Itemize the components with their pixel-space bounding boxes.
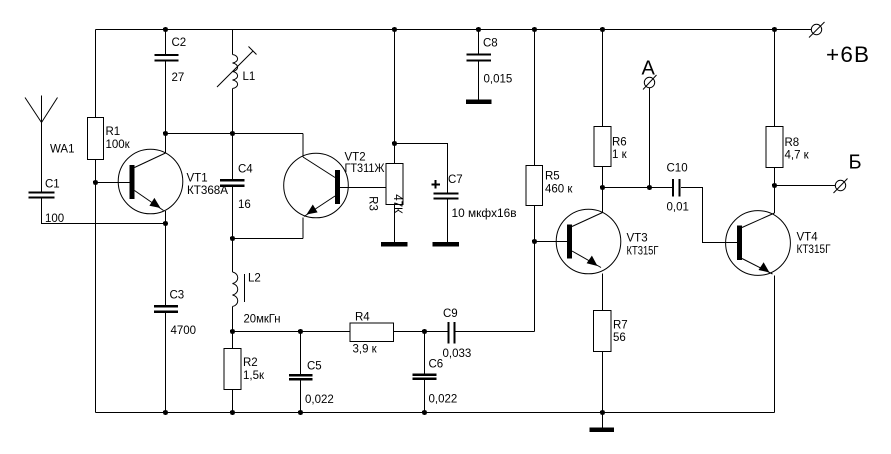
junction R5 bottom / VT3 base: [532, 239, 537, 244]
wire R8 riser from rail: [774, 30, 776, 127]
wire C10 to VT4 base: [681, 188, 737, 243]
terminal A: [642, 58, 657, 90]
svg-text:VT2: VT2: [345, 152, 366, 164]
capacitor C7 10uF electrolytic: [432, 174, 517, 242]
svg-text:C9: C9: [443, 308, 458, 320]
transistor VT2 GT311Zh: [284, 134, 386, 239]
wire C4 bottom to VT2 emitter y=238.5: [233, 238, 304, 240]
wire VT4 emitter drop to bus: [774, 276, 776, 413]
svg-text:C7: C7: [448, 174, 463, 186]
resistor R6 1k: [594, 127, 628, 167]
svg-text:C10: C10: [667, 163, 688, 175]
svg-text:100: 100: [45, 213, 64, 225]
junction C6 bottom on bus: [422, 410, 427, 415]
resistor R2 1.5k: [224, 332, 265, 413]
junction node A / C10 line: [647, 185, 652, 190]
junction C5 top / R4 left: [298, 329, 303, 334]
resistor R5 460k: [526, 166, 573, 206]
junction R2 bottom on bus: [230, 410, 235, 415]
junction C2 bottom / VT1 collector: [163, 131, 168, 136]
capacitor C6 0.022: [413, 332, 458, 413]
svg-text:L2: L2: [248, 273, 261, 285]
wire R1 riser to rail and drop to bus: [95, 30, 97, 413]
ground under R3: [381, 242, 408, 247]
svg-text:L1: L1: [243, 71, 256, 83]
capacitor C10 0.01: [667, 163, 689, 214]
svg-text:1 к: 1 к: [612, 149, 628, 161]
svg-text:КТ315Г: КТ315Г: [627, 246, 660, 258]
resistor R1 100k: [88, 118, 131, 160]
svg-text:4700: 4700: [171, 325, 197, 337]
junction R7 bottom / ground on bus: [600, 410, 605, 415]
junction R4 right / C6 / C9: [422, 329, 427, 334]
wire node B lead: [775, 185, 836, 187]
svg-text:C2: C2: [172, 37, 187, 49]
svg-text:WA1: WA1: [50, 144, 75, 156]
junction R3 feed on rail: [392, 27, 397, 32]
ground symbol below bus: [590, 413, 615, 433]
transistor VT3 KT315G: [556, 188, 659, 311]
svg-text:ГТ311Ж: ГТ311Ж: [345, 163, 385, 175]
terminal B: [834, 152, 862, 194]
svg-text:47К: 47К: [391, 194, 403, 214]
transistor VT1 KT368A: [118, 134, 228, 224]
junction C8 on rail: [476, 27, 481, 32]
svg-text:R6: R6: [612, 137, 627, 149]
wire VT3 base: [535, 241, 568, 243]
resistor R4 3.9k: [350, 312, 394, 356]
junction R8 on rail: [772, 27, 777, 32]
svg-text:R7: R7: [613, 320, 628, 332]
svg-text:VT4: VT4: [797, 232, 819, 244]
svg-text:КТ315Г: КТ315Г: [797, 244, 832, 256]
svg-text:R3: R3: [367, 196, 379, 211]
wire R8 bottom to VT4 collector node: [774, 168, 776, 186]
capacitor C2 27: [155, 30, 187, 134]
wire lowpass line y=331.5 L2 to R4 to C9 to VT3 base riser: [233, 331, 535, 333]
svg-text:R8: R8: [785, 137, 800, 149]
wire bottom ground bus: [96, 412, 775, 414]
wire node A drop: [649, 88, 651, 188]
junction R6 bottom / VT3 collector: [600, 185, 605, 190]
resistor R3 47K: [367, 164, 404, 243]
svg-text:0,022: 0,022: [429, 394, 458, 406]
junction R5 on rail: [532, 27, 537, 32]
wire R5 riser from rail: [534, 30, 536, 166]
capacitor C4 16: [220, 134, 253, 239]
svg-text:0,01: 0,01: [667, 202, 689, 214]
svg-text:0,022: 0,022: [305, 394, 334, 406]
resistor R8 4.7k: [766, 127, 810, 168]
svg-text:C3: C3: [170, 290, 185, 302]
svg-text:Б: Б: [849, 152, 862, 174]
capacitor C1 100: [29, 179, 65, 226]
capacitor C5 0.022: [289, 332, 334, 413]
svg-text:3,9 к: 3,9 к: [353, 344, 378, 356]
junction R6 on rail: [600, 27, 605, 32]
junction VT1 emitter / C1 / C3: [163, 221, 168, 226]
wire R3/C7 feed from rail: [395, 30, 448, 193]
svg-text:4,7 к: 4,7 к: [785, 150, 810, 162]
svg-text:C4: C4: [238, 164, 253, 176]
wire C1 bottom to VT1 emitter node: [42, 198, 166, 224]
svg-text:R5: R5: [545, 171, 560, 183]
svg-text:R1: R1: [106, 126, 121, 138]
junction VT1 base / R1: [93, 180, 98, 185]
svg-text:27: 27: [172, 72, 185, 84]
svg-text:R2: R2: [243, 357, 258, 369]
ground under C7: [433, 242, 460, 247]
svg-text:C8: C8: [483, 38, 498, 50]
wire VT1 base: [96, 182, 131, 184]
svg-text:0,033: 0,033: [443, 348, 472, 360]
svg-text:VT1: VT1: [187, 173, 208, 185]
inductor L1 variable: [217, 30, 257, 134]
junction C2 top on rail: [163, 27, 168, 32]
junction C4 top on collector bus: [230, 131, 235, 136]
svg-text:20мкГн: 20мкГн: [244, 314, 281, 326]
svg-text:56: 56: [613, 332, 626, 344]
svg-text:100к: 100к: [106, 139, 131, 151]
capacitor C8 0.015: [467, 30, 513, 100]
terminal +6V: [809, 22, 870, 67]
junction R3 top / C7 branch: [392, 141, 397, 146]
junction L2 bottom / R2 top: [230, 329, 235, 334]
svg-text:А: А: [642, 58, 656, 80]
antenna WA1: [25, 96, 75, 193]
resistor R7 56: [594, 311, 628, 413]
wire R5 bottom to VT3 base node and down to C9 line: [534, 206, 536, 332]
svg-text:10 мкфх16в: 10 мкфх16в: [452, 208, 517, 220]
svg-text:16: 16: [238, 199, 251, 211]
svg-text:+6В: +6В: [826, 42, 870, 67]
wire R6 riser from rail: [602, 30, 604, 127]
svg-text:C6: C6: [429, 359, 444, 371]
wire R6 bottom to VT3 collector node, to C10: [603, 167, 673, 188]
svg-text:460 к: 460 к: [545, 184, 573, 196]
capacitor C9 0.033: [443, 308, 472, 360]
svg-text:VT3: VT3: [627, 233, 648, 245]
transistor VT4 KT315G: [726, 186, 832, 276]
junction R8 bottom / VT4 collector / node B: [772, 183, 777, 188]
wire collector bus y=133.5 from C2 to VT2: [166, 133, 304, 135]
junction C3 bottom on bus: [163, 410, 168, 415]
svg-text:1,5к: 1,5к: [243, 370, 265, 382]
svg-text:R4: R4: [355, 312, 370, 324]
svg-text:C1: C1: [45, 179, 60, 191]
svg-text:0,015: 0,015: [484, 74, 513, 86]
inductor L2 20uH: [233, 239, 281, 332]
svg-text:C5: C5: [307, 361, 322, 373]
junction C4 bottom / VT2 emitter / L2: [230, 236, 235, 241]
ground under C8: [466, 100, 492, 105]
junction C5 bottom on bus: [298, 410, 303, 415]
wire +6V top rail: [96, 29, 812, 31]
capacitor C3 4700: [154, 224, 196, 413]
